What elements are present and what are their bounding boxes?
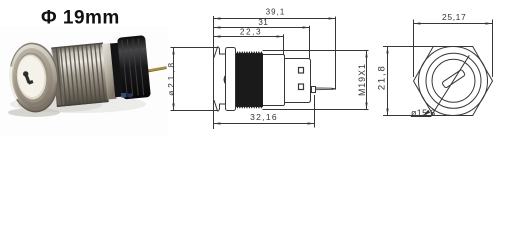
head lip profile bottom <box>214 100 226 111</box>
svg-text:21,8: 21,8 <box>376 64 387 90</box>
thread section black <box>236 51 262 109</box>
M19X1 dimension line <box>366 51 368 110</box>
terminal slot 1 <box>299 68 304 74</box>
extension lines 25,17 <box>413 20 415 78</box>
photo threaded barrel <box>51 43 108 107</box>
arrow 31 left <box>214 26 221 28</box>
dimension line 31 <box>214 27 310 29</box>
thread teeth top <box>236 51 262 54</box>
dimension line 39,1 <box>214 18 336 20</box>
hexagon nut outline <box>414 47 493 116</box>
head neck groove lens <box>224 75 226 84</box>
extension line right 32,16 <box>314 95 316 128</box>
pin <box>316 88 336 90</box>
photo flange ellipse <box>6 40 61 114</box>
photo black rear collar <box>110 43 124 98</box>
svg-text:ø15,6: ø15,6 <box>411 108 436 118</box>
photo black rear cap <box>117 35 151 99</box>
arrow diameter 21,8 bottom <box>172 104 174 111</box>
photo neck shadow behind flange <box>52 47 64 106</box>
svg-text:22,3: 22,3 <box>240 26 262 36</box>
arrow diameter 21,8 top <box>172 48 174 55</box>
arrow 32,16 left <box>214 122 221 124</box>
leader line diameter 15,6 <box>411 55 470 116</box>
arrow leader diameter 15,6 <box>423 110 430 116</box>
body section <box>263 55 285 106</box>
dimension line diameter 21,8 left <box>173 48 175 111</box>
extension lines diameter 21,8 left <box>171 47 219 49</box>
M19X1 extension lines <box>263 50 369 52</box>
photo keyhole <box>22 70 33 85</box>
arrow 39,1 right <box>329 17 336 19</box>
bezel circle <box>426 53 481 108</box>
arrow M19X1 bottom <box>365 103 367 110</box>
photo ivory key face <box>16 55 46 99</box>
arrow 22,3 right <box>277 35 284 37</box>
photo rear cap ribs <box>122 38 144 96</box>
face circle <box>432 59 475 102</box>
dimension line 21,8 right <box>387 47 389 116</box>
arrow 32,16 right <box>308 122 315 124</box>
dimension line 32,16 <box>214 123 315 125</box>
svg-text:Φ 19mm: Φ 19mm <box>41 8 120 29</box>
photo smooth collar <box>102 43 116 100</box>
svg-text:39,1: 39,1 <box>266 7 286 16</box>
photo gold pin <box>144 66 167 72</box>
arrow 21,8 right bottom <box>386 109 388 116</box>
arrow 25,17 right <box>486 22 493 24</box>
photo button group (tilted) <box>6 30 169 115</box>
arrow 39,1 left <box>214 17 221 19</box>
dimension line 25,17 <box>414 23 493 25</box>
arrow 22,3 left <box>214 35 221 37</box>
arrows right view <box>386 22 492 115</box>
arrow M19X1 top <box>365 51 367 58</box>
extension line right 31 <box>309 26 311 59</box>
pin base <box>312 87 316 93</box>
extension lines 21,8 right <box>383 46 434 48</box>
photo background <box>0 26 168 135</box>
extension line right 39,1 <box>335 17 337 90</box>
photo flange highlight arc <box>9 66 17 99</box>
photo flange lower-right shade arc <box>48 82 59 103</box>
head lip profile top <box>214 47 226 58</box>
extension line right 22,3 <box>283 34 285 54</box>
photo thread ridges <box>56 44 104 106</box>
terminal block <box>285 59 311 103</box>
pin tip <box>332 88 336 89</box>
extension line left (button face) <box>213 16 215 129</box>
svg-text:ø21,8: ø21,8 <box>166 60 176 96</box>
key slot <box>442 69 466 88</box>
head flange <box>226 48 236 111</box>
dimension arrows middle view <box>172 17 367 124</box>
arrow 21,8 right top <box>386 47 388 54</box>
photo rear blue terminal glints <box>121 93 126 98</box>
dimension line 22,3 <box>214 36 284 38</box>
arrow 31 right <box>303 26 310 28</box>
arrow 25,17 left <box>414 22 421 24</box>
svg-text:25,17: 25,17 <box>442 12 466 22</box>
svg-text:32,16: 32,16 <box>250 112 278 122</box>
photo barrel edge lines <box>51 43 103 48</box>
terminal slot 2 <box>299 84 304 90</box>
photo shadow under button <box>10 95 146 113</box>
thread teeth bottom <box>236 106 262 109</box>
outer circle <box>419 47 488 116</box>
svg-text:M19X1: M19X1 <box>357 63 367 96</box>
